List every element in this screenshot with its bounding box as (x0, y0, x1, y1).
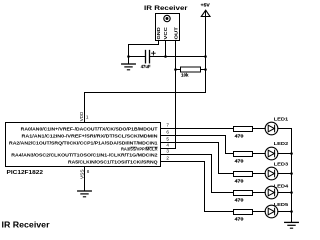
node VCC junction (164, 55, 167, 58)
ground (LED rail) (285, 221, 299, 223)
svg-text:LED1: LED1 (274, 117, 289, 122)
svg-text:VCC: VCC (163, 26, 168, 39)
svg-text:470: 470 (235, 178, 245, 183)
wire pin4 MCLR stub (161, 148, 176, 150)
LED D2 (253, 147, 292, 160)
wire pin5 to R3 (161, 143, 234, 174)
resistor R6 10k (176, 69, 181, 71)
node rail-VCC junction (204, 55, 207, 58)
svg-text:+5V: +5V (201, 3, 211, 8)
LED D1 (253, 122, 292, 135)
svg-text:470: 470 (235, 216, 245, 221)
svg-text:PIC12F1822: PIC12F1822 (7, 170, 44, 176)
svg-text:47uF: 47uF (141, 64, 151, 69)
svg-text:4: 4 (166, 143, 169, 148)
svg-text:RA2/AN2/C1OUT/SRQ/T0CKI/CCP1/P: RA2/AN2/C1OUT/SRQ/T0CKI/CCP1/P1A/SDA/SDI… (9, 141, 158, 146)
capacitor C1 plates (145, 51, 147, 63)
resistor R2 470 (234, 152, 253, 157)
wire GND pin to cap node (129, 41, 159, 57)
IR receiver lens dot (166, 17, 169, 20)
node cap-gnd junction (127, 55, 130, 58)
svg-text:8: 8 (87, 169, 90, 174)
svg-text:OUT: OUT (173, 27, 178, 40)
node rail y153.5 (290, 152, 293, 155)
svg-text:RA0/AN0/C1IN+/VREF-/DACOUT/TX/: RA0/AN0/C1IN+/VREF-/DACOUT/TX/CK/SDO/P1B… (21, 127, 158, 132)
svg-text:IR Receiver: IR Receiver (2, 219, 51, 229)
chip U1 PIC12F1822 box (6, 123, 161, 167)
LED D5 (253, 205, 292, 218)
resistor R5 470 (234, 210, 253, 215)
svg-text:VSS: VSS (79, 170, 84, 180)
svg-text:1: 1 (86, 115, 89, 120)
node 10k right junction (204, 68, 207, 71)
svg-text:GND: GND (156, 26, 161, 39)
resistor R3 470 (234, 172, 253, 177)
svg-text:470: 470 (235, 158, 245, 163)
resistor R1 470 (234, 127, 253, 132)
wire VDD pin vertical (84, 93, 86, 123)
svg-text:10k: 10k (181, 73, 189, 78)
ground (VSS) (78, 190, 92, 192)
IR receiver lens circle (164, 15, 170, 21)
svg-text:RA5/CLKIN/OSC1/T1OSI/T1CKI/SRN: RA5/CLKIN/OSC1/T1OSI/T1CKI/SRNQ (68, 160, 158, 165)
wire pin6 to R2 (161, 136, 234, 154)
svg-text:6: 6 (166, 130, 169, 135)
svg-text:3: 3 (166, 149, 169, 154)
svg-text:5: 5 (166, 137, 169, 142)
LED D4 (253, 186, 292, 199)
svg-text:7: 7 (166, 123, 169, 128)
node 10k left junction (174, 68, 177, 71)
resistor R4 470 (234, 191, 253, 196)
svg-text:470: 470 (235, 133, 245, 138)
node rail y173.5 (290, 172, 293, 175)
wire cathode rail (291, 129, 293, 222)
overline SS (131, 146, 137, 148)
wire +5V rail vertical (205, 11, 207, 93)
wire supply row left segment (129, 56, 145, 58)
svg-text:2: 2 (166, 156, 169, 161)
svg-text:VDD: VDD (79, 111, 84, 121)
wire pin3 to R4 (161, 155, 234, 193)
svg-text:LED2: LED2 (274, 141, 289, 146)
svg-text:IR Receiver: IR Receiver (144, 5, 188, 12)
svg-text:RA4/AN3/OSC2/CLKOUT/T1OSO/C1IN: RA4/AN3/OSC2/CLKOUT/T1OSO/C1IN1-/CLKR/T1… (11, 153, 158, 158)
wire pin2 to R5 (161, 162, 234, 212)
wire VCC pin down (165, 41, 167, 57)
wire supply row right segment (150, 56, 205, 58)
svg-text:470: 470 (235, 197, 245, 202)
svg-text:LED4: LED4 (274, 184, 289, 189)
svg-text:LED3: LED3 (274, 162, 289, 167)
node rail y211.5 (290, 210, 293, 213)
svg-text:RA3/SS/VPP/MCLR: RA3/SS/VPP/MCLR (121, 147, 158, 152)
wire OUT pin down to MCLR row (175, 41, 177, 149)
LED D3 (253, 167, 292, 180)
wire VDD supply horizontal (85, 92, 206, 94)
svg-text:RA1/AN1/C12IN0-/VREF+/SRI/RX/D: RA1/AN1/C12IN0-/VREF+/SRI/RX/DT/SCL/SCK/… (22, 134, 159, 139)
IR receiver module box (156, 14, 180, 41)
capacitor plus sign (152, 51, 156, 55)
wire VSS pin down (84, 167, 86, 191)
ground (cap) (128, 57, 130, 64)
node rail y192.5 (290, 191, 293, 194)
power symbol +5V arrow (201, 10, 210, 16)
wire pin7 to R1 (161, 128, 234, 130)
svg-text:LED5: LED5 (274, 202, 289, 207)
overline MCLR (146, 146, 157, 148)
